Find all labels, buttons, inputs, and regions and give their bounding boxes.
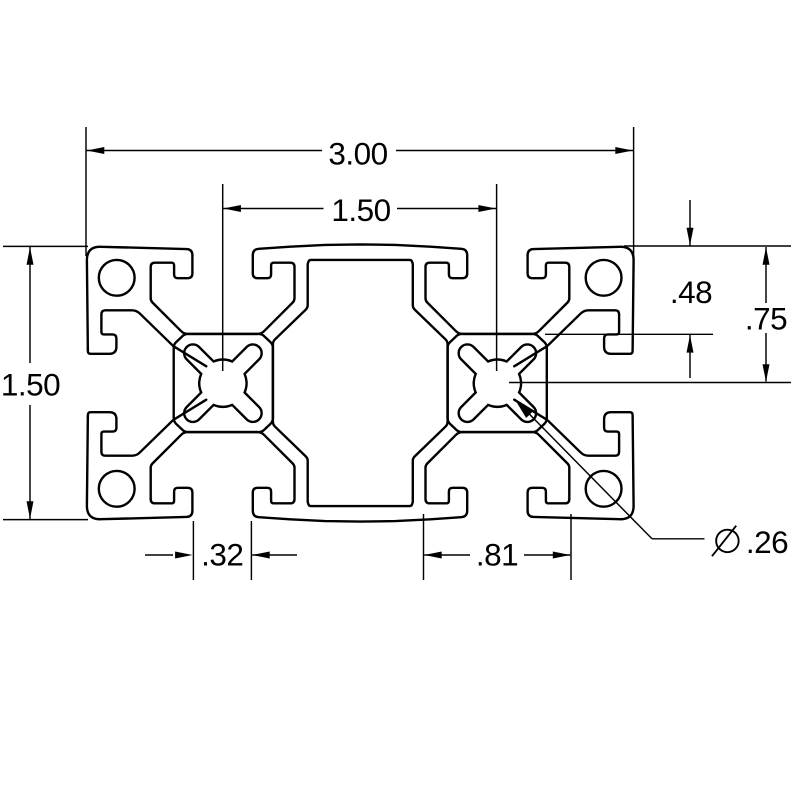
leader arrowhead [515, 400, 533, 418]
dim 1.50 vertical dimension line [29, 246, 31, 363]
dim .48 upper arrow [689, 200, 691, 246]
dim 1.50 horizontal dimension line [223, 208, 324, 210]
bottom-right corner hole [586, 471, 622, 507]
dim .32 right extension line [250, 521, 252, 580]
top-left corner hole [99, 260, 135, 296]
svg-text:.81: .81 [476, 537, 518, 573]
svg-text:.75: .75 [745, 301, 787, 337]
dim 3.00 right extension line [633, 127, 635, 257]
svg-text:1.50: 1.50 [1, 367, 60, 403]
left center bore with X relief slots [184, 344, 261, 421]
left core web octagon [174, 334, 273, 432]
left face T-slot upper lip and channel [88, 310, 206, 366]
dim 3.00 arrowheads [87, 147, 105, 154]
dim .75 dimension line [765, 247, 767, 303]
right center bore with X relief slots [459, 344, 536, 421]
dim .48 lower extension line (T-slot depth) [545, 333, 713, 335]
diameter symbol [716, 530, 739, 553]
leader line for diameter callout [515, 400, 652, 539]
dim .48/.75 top extension line [624, 245, 791, 247]
svg-text:.48: .48 [670, 274, 712, 310]
dim 3.00 dimension line [86, 150, 322, 152]
dim 1.50 vertical top extension line [3, 245, 88, 247]
svg-text:.26: .26 [746, 524, 788, 560]
svg-text:.32: .32 [201, 537, 243, 573]
bottom-left corner hole [99, 471, 135, 507]
central hollow cavity [273, 260, 448, 506]
dim .81 left extension line [423, 514, 425, 580]
dim 1.50 vertical bottom extension line [3, 519, 88, 521]
svg-text:3.00: 3.00 [328, 136, 387, 172]
left face T-slot lower lip and channel [88, 400, 206, 456]
outer profile contour upper half with top T-slots [87, 244, 634, 366]
dim 1.50 vertical arrowheads [27, 247, 34, 265]
top-right corner hole [586, 260, 622, 296]
dim .81 arrowheads [424, 552, 442, 559]
dim .75 bottom extension line (slot centerline) [509, 382, 791, 384]
outer profile contour lower half with bottom T-slots [87, 400, 634, 522]
dim .81 right extension line [570, 514, 572, 580]
dim .75 arrowheads [763, 247, 770, 265]
dim .32 right arrow [252, 554, 297, 556]
dim 1.50 horizontal arrowheads [223, 205, 241, 212]
svg-text:1.50: 1.50 [331, 192, 390, 228]
dim 3.00 left extension line [85, 127, 87, 256]
dim .32 left arrow [145, 554, 173, 556]
dim 1.50 horizontal left extension/center line [222, 184, 224, 371]
dim .81 dimension line [424, 554, 470, 556]
dim .32 left extension line [192, 521, 194, 580]
right core web octagon [448, 334, 547, 432]
dim .48 lower arrow [689, 334, 691, 378]
dim 1.50 horizontal right extension/center line [496, 184, 498, 371]
